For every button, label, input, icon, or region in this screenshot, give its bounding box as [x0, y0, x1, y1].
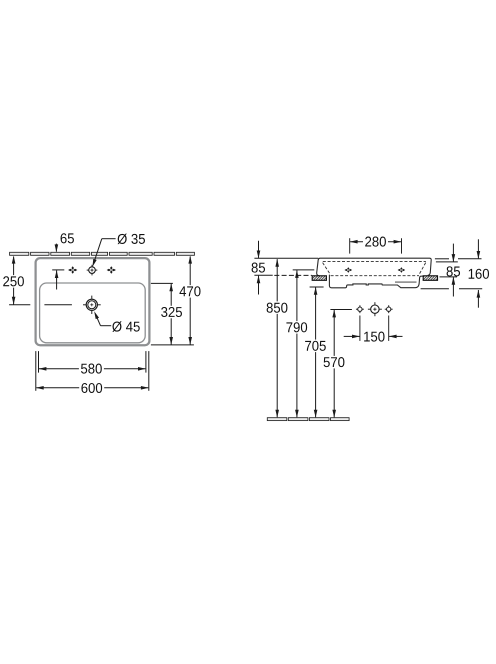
hidden edge dashed top	[323, 260, 426, 262]
extension lines for 580/600	[36, 351, 149, 391]
dimension 85 left	[252, 241, 265, 295]
basin top extension line	[254, 257, 318, 259]
centerline dash inside basin	[44, 304, 72, 306]
wall line (plan view)	[10, 252, 195, 255]
dimension 705 (height above floor)	[303, 287, 328, 418]
fixing hole cross right (side view)	[398, 267, 406, 273]
wall line solid left (85 target)	[254, 274, 272, 276]
dimension 470 (basin depth)	[151, 256, 202, 345]
dimension 325	[151, 283, 183, 344]
wall bracket right (hatched)	[423, 276, 437, 281]
dimension 250 (drain from wall)	[2, 256, 25, 305]
wall line solid right (85 target)	[440, 276, 458, 278]
tap hole cross left	[68, 266, 77, 274]
floor line	[267, 418, 349, 421]
dimension 280 (fixing holes)	[350, 235, 402, 253]
dimension 85 right	[435, 244, 482, 297]
dimension 570 (height above floor)	[322, 310, 347, 418]
label Ø 35 with leader	[93, 234, 145, 267]
wall line dash-dot	[274, 274, 312, 276]
trap hole left (side view)	[356, 305, 364, 313]
washbasin inner bowl outline (plan)	[40, 283, 146, 343]
wall bracket left (hatched)	[312, 276, 326, 281]
dimension 580	[39, 362, 146, 375]
dimension 790 (height above floor)	[284, 270, 309, 417]
hidden edge dashed diagonal left	[323, 263, 330, 274]
705 extension line	[310, 286, 324, 288]
drain hole circles (Ø45)	[83, 296, 101, 314]
trap hole right (side view)	[385, 305, 393, 313]
dimension 150	[344, 316, 403, 343]
basin body underside profile	[329, 275, 427, 288]
drain circle (side view)	[368, 302, 382, 316]
dimension 65 (tap holes from wall)	[52, 233, 74, 289]
hidden edge dashed lower	[331, 275, 419, 277]
hidden edge dashed diagonal right	[420, 263, 426, 274]
label Ø 45 with leader	[94, 311, 140, 332]
dimension 850 (height above floor)	[265, 259, 290, 418]
centerline tick left of basin / 250 target	[9, 304, 30, 306]
dimension 160 (basin height)	[421, 239, 489, 307]
fixing hole cross left (side view)	[345, 267, 353, 273]
basin rim profile (side view)	[317, 258, 432, 276]
hidden bottom back edge	[395, 281, 417, 283]
faucet hole circle (Ø35)	[87, 265, 98, 276]
dimension 600 (basin width)	[36, 382, 149, 395]
tap hole cross right	[107, 266, 116, 274]
570 extension line	[330, 309, 352, 311]
fixing holes extension line	[293, 269, 315, 271]
washbasin outer outline (plan)	[36, 258, 150, 345]
